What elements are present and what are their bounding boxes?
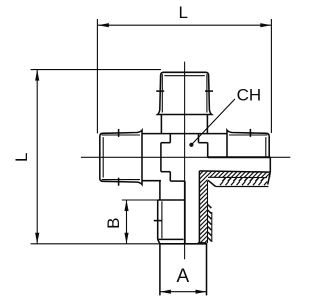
bottom hex bottom edge [158, 238, 184, 240]
right arm tip face lower half [269, 157, 271, 172]
svg-text:B: B [104, 218, 123, 229]
bottom arm silhouette line [211, 212, 213, 242]
section hatching [120, 160, 320, 250]
bottom arm bore line [198, 171, 200, 243]
arrow left of A [160, 290, 171, 294]
upper shoulder line across body [142, 133, 226, 135]
body step bottom-left vertical [169, 172, 171, 181]
top port thread end outline [158, 72, 212, 114]
leader line CH [192, 99, 235, 144]
bottom collar left edge [159, 181, 161, 200]
right arm thread teeth [222, 178, 264, 182]
right arm thread root line [208, 176, 267, 178]
extension line bottom shared [31, 243, 160, 245]
dimension line A [160, 291, 207, 293]
body step top-left vertical [169, 134, 171, 143]
bottom thread right edge [206, 243, 208, 296]
left port thread end outline [100, 130, 142, 184]
left collar bottom edge [142, 180, 161, 182]
svg-text:CH: CH [237, 85, 262, 104]
right arm silhouette slant [208, 180, 216, 186]
dimension line B [126, 200, 128, 244]
svg-text:A: A [176, 266, 189, 287]
bottom hex left edge [157, 200, 159, 239]
left port thread end side chamfer lines [102, 179, 140, 181]
arrow right of A [196, 290, 207, 294]
arrow top of B [124, 200, 128, 211]
top port thread end side chamfer lines [161, 74, 163, 112]
extension line top-left [96, 19, 98, 133]
bottom hex top edge [158, 199, 185, 201]
leader dot [189, 143, 193, 147]
right port thread end tip chamfer line [265, 137, 267, 177]
extension line top-right [270, 19, 272, 133]
vertical centerline [184, 62, 186, 260]
arrow top of left L [35, 70, 39, 81]
bottom hex neck slant [158, 239, 160, 243]
bottom hex chamfer line [161, 201, 163, 238]
bottom thread left edge [159, 244, 161, 296]
body right edge upper half [207, 143, 209, 158]
body step top-left horizontal [161, 142, 170, 144]
section edge along bottom arm axis [184, 181, 186, 244]
right arm tip chamfer [268, 172, 271, 184]
arrow bottom of left L [35, 233, 39, 244]
bottom arm thread root line [207, 181, 209, 243]
arrow right of top L [260, 23, 271, 27]
arrow bottom of B [124, 233, 128, 244]
svg-text:L: L [178, 3, 187, 22]
horizontal centerline [81, 156, 290, 158]
body step top-right horizontal [199, 142, 208, 144]
arrow left of top L [98, 23, 109, 27]
top collar left edge [160, 115, 162, 134]
right arm silhouette bottom [216, 186, 269, 188]
body step top-right vertical [198, 134, 200, 143]
dimension line L left [36, 70, 38, 244]
svg-text:L: L [12, 153, 31, 162]
top port thread end hex ticks [156, 90, 164, 92]
right port thread end hex ticks [249, 129, 251, 137]
section edge along right arm axis [208, 156, 270, 158]
top port thread end tip chamfer line [164, 75, 204, 77]
bottom arm section bottom close [198, 242, 207, 244]
right arm bore line [199, 171, 270, 172]
extension line B top [122, 199, 158, 201]
right port thread end outline [227, 130, 269, 184]
right port thread end side chamfer lines [229, 134, 267, 136]
extension line left-top [31, 69, 161, 71]
body bottom edge left half [170, 180, 185, 182]
body left edge [160, 143, 162, 172]
dimension line L top [98, 24, 271, 26]
bottom thread shoulder line [160, 243, 207, 245]
bottom arm thread teeth [208, 205, 212, 242]
left port thread end tip chamfer line [102, 137, 104, 177]
left port thread end hex ticks [118, 178, 120, 186]
body step bottom-left horizontal [161, 171, 170, 173]
top collar right edge [206, 115, 208, 134]
bottom hex tick [154, 220, 162, 222]
